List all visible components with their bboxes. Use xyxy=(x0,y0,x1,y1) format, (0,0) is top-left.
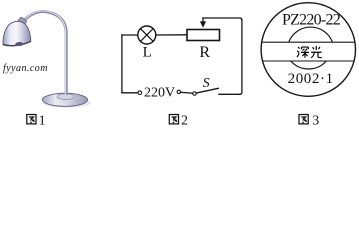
band top line xyxy=(262,41,355,43)
caption 图 3 xyxy=(299,113,319,128)
caption 图 1 xyxy=(27,113,46,128)
svg-text:S: S xyxy=(203,76,210,91)
inner circle top arc xyxy=(289,27,333,42)
wire lamp to rheostat xyxy=(156,34,187,36)
lamp stem highlight xyxy=(22,11,66,95)
svg-text:R: R xyxy=(199,44,210,61)
lamp stem xyxy=(22,11,67,95)
lamp shade rim xyxy=(3,41,31,45)
svg-text:220V: 220V xyxy=(144,86,175,101)
wire right vertical xyxy=(240,20,242,94)
lamp shade cap xyxy=(16,17,27,28)
svg-text:PZ220-22: PZ220-22 xyxy=(282,11,341,28)
caption 图 2 xyxy=(169,113,188,128)
inner circle bottom arc xyxy=(291,61,327,69)
svg-text:L: L xyxy=(143,45,152,61)
switch S blade xyxy=(196,88,218,93)
circuit (figure 2) xyxy=(122,18,242,95)
svg-text:2002·1: 2002·1 xyxy=(288,71,334,87)
lamp L xyxy=(138,26,156,44)
svg-text:1: 1 xyxy=(39,113,46,128)
lamp base hub xyxy=(57,94,74,100)
label ShenGuang (CJK) xyxy=(297,46,322,58)
char Guang xyxy=(311,46,322,58)
terminal right xyxy=(177,90,180,93)
svg-text:fyyan.com: fyyan.com xyxy=(3,63,48,74)
band bottom line xyxy=(262,60,354,62)
wire bottom-left xyxy=(122,92,138,94)
outer circle xyxy=(261,3,355,97)
lamp base xyxy=(42,93,87,106)
wire left vertical xyxy=(121,35,123,93)
lamp base shadow xyxy=(43,99,91,108)
desk lamp photo (figure 1) xyxy=(3,11,91,108)
svg-text:2: 2 xyxy=(181,113,188,128)
wire top-left to lamp xyxy=(122,34,138,36)
wire top xyxy=(203,18,242,20)
lamp bulb socket xyxy=(15,42,23,46)
rheostat R body xyxy=(187,30,220,41)
switch pivot xyxy=(193,92,197,96)
lamp shade dome xyxy=(3,21,31,45)
bulb marking (figure 3) xyxy=(261,3,355,97)
rheostat wiper arrow xyxy=(200,18,206,28)
wire bottom-right stub to switch xyxy=(219,93,240,95)
char Shen xyxy=(297,47,309,58)
terminal left xyxy=(138,91,142,95)
wire terminal to switch pivot xyxy=(181,91,193,94)
svg-text:3: 3 xyxy=(312,113,319,128)
